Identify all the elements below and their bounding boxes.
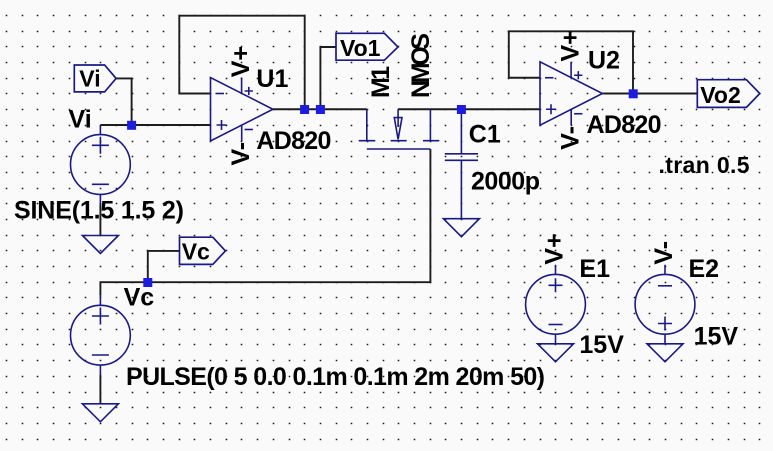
svg-text:V-: V- [650, 241, 678, 265]
svg-text:V+: V+ [541, 233, 569, 264]
wire U2 feedback loop [509, 31, 633, 93]
junction U1 feedback node [300, 105, 309, 114]
net flag Vo2 [697, 80, 760, 108]
svg-text:U2: U2 [588, 47, 620, 75]
svg-text:2000p: 2000p [471, 168, 540, 196]
ground below V3 [82, 404, 118, 422]
svg-text:E1: E1 [579, 255, 610, 283]
op-amp U2 [540, 62, 602, 126]
svg-text:Vi: Vi [79, 66, 100, 92]
voltage source V3 (Vc) [71, 296, 131, 375]
svg-text:Vi: Vi [69, 105, 92, 133]
junction Vi node [127, 121, 136, 130]
svg-text:C1: C1 [469, 121, 501, 149]
net flag Vi [74, 65, 116, 92]
svg-text:AD820: AD820 [587, 111, 662, 139]
wire U2 output to Vo2 flag [602, 93, 698, 95]
wire Vc flag drop [148, 251, 180, 282]
junction C1 node [457, 105, 466, 114]
wire Vi flag to node [116, 78, 132, 125]
wire Vi row to U1 +input [100, 124, 210, 126]
capacitor C1 [445, 109, 478, 218]
net flag Vo1 [336, 33, 398, 61]
svg-text:V+: V+ [227, 46, 255, 77]
ground below C1 [443, 219, 479, 237]
svg-text:V+: V+ [556, 30, 584, 61]
voltage source V1 (Vi) [71, 125, 131, 204]
junction U2 output node [629, 89, 638, 98]
svg-text:V-: V- [556, 126, 584, 150]
wire Vc node to V3 top [100, 282, 147, 296]
svg-text:AD820: AD820 [256, 127, 331, 155]
svg-text:SINE(1.5 1.5 2): SINE(1.5 1.5 2) [14, 197, 184, 225]
svg-text:NMOS: NMOS [407, 33, 435, 98]
wire M1 source row to U2 +input [398, 108, 540, 110]
svg-text:V-: V- [227, 142, 255, 166]
svg-text:15V: 15V [694, 323, 739, 351]
junction Vc node [143, 278, 152, 287]
svg-text:E2: E2 [689, 255, 720, 283]
svg-text:15V: 15V [579, 331, 624, 359]
wire M1 gate to Vc node [148, 149, 431, 282]
net flag Vc [180, 237, 226, 264]
wire U1 feedback loop [179, 16, 304, 110]
svg-text:Vo2: Vo2 [700, 82, 740, 108]
ground below V1 [82, 236, 118, 254]
wire U1 output to M1 drain [273, 108, 367, 110]
op-amp U1 [211, 78, 273, 142]
svg-text:Vc: Vc [182, 239, 210, 265]
svg-text:.tran 0.5: .tran 0.5 [659, 152, 750, 178]
junction Vo1 node [316, 105, 325, 114]
svg-text:PULSE(0 5 0.0 0.1m 0.1m 2m 20m: PULSE(0 5 0.0 0.1m 0.1m 2m 20m 50) [126, 363, 545, 391]
nmos M1 [359, 109, 440, 149]
svg-text:M1: M1 [367, 66, 395, 98]
wire Vo1 flag drop [320, 47, 336, 109]
svg-text:Vo1: Vo1 [340, 35, 381, 61]
wire V3 bottom to ground [99, 375, 101, 404]
ground below E1 [538, 344, 574, 362]
ground below E2 [647, 344, 683, 362]
wire V1 bottom to ground [99, 204, 101, 236]
svg-text:Vc: Vc [124, 284, 155, 312]
voltage source E1 [526, 265, 586, 344]
svg-text:U1: U1 [256, 65, 288, 93]
voltage source E2 [635, 265, 695, 344]
